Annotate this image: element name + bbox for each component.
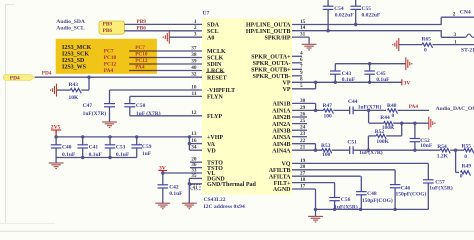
svg-text:VD: VD <box>207 148 216 154</box>
capacitor C54 <box>327 0 329 6</box>
svg-text:PC10: PC10 <box>104 55 117 61</box>
svg-text:PA4: PA4 <box>104 68 114 74</box>
svg-text:3: 3 <box>454 32 457 38</box>
capacitor C48 <box>356 192 367 195</box>
wire C48 to rail <box>360 195 362 210</box>
node C56 rail <box>333 208 336 211</box>
capacitor C40 <box>51 145 62 148</box>
svg-text:C45: C45 <box>376 71 386 77</box>
wire SPKR/HP pin 31 <box>292 36 309 38</box>
svg-text:R65: R65 <box>422 37 432 43</box>
capacitor C57 <box>423 180 434 183</box>
pin stub AIN2B <box>292 116 307 118</box>
node C45/VP <box>368 81 371 84</box>
pin stub AIN3A <box>292 136 307 138</box>
pin stub AIN3B <box>292 129 307 131</box>
svg-text:150pF(COG): 150pF(COG) <box>362 197 393 204</box>
svg-text:C43: C43 <box>342 71 352 77</box>
wire to R49 <box>456 171 459 173</box>
resistor R44 <box>384 122 393 127</box>
node PD4/R43 junction <box>87 76 90 79</box>
pin stub TSTO 20 <box>190 161 202 163</box>
RESET overline <box>206 71 225 73</box>
capacitor C51 <box>350 146 353 154</box>
capacitor C55 <box>355 0 357 6</box>
wire rail to ground <box>55 158 57 164</box>
PD4 tag flag <box>3 75 35 81</box>
wire AIN4A pin 21 <box>292 149 322 151</box>
wire R44 to ground <box>393 122 429 124</box>
svg-text:10nF: 10nF <box>420 143 433 149</box>
wire DGND pin 35 <box>189 177 202 179</box>
capacitor C42 <box>158 185 169 188</box>
wire C50 bottom to FLYP <box>129 107 131 116</box>
svg-text:C40: C40 <box>62 145 72 151</box>
wire C51 through J2 to R54 <box>353 149 440 151</box>
svg-text:C55: C55 <box>362 6 372 12</box>
svg-text:C50: C50 <box>136 103 146 109</box>
wire R43 to junction <box>81 89 89 91</box>
svg-text:SPKR_OUTA-: SPKR_OUTA- <box>253 61 291 67</box>
svg-text:AGND: AGND <box>273 187 291 193</box>
svg-text:Audio_SCL: Audio_SCL <box>56 26 85 32</box>
node R55/R49 <box>454 149 457 152</box>
svg-text:0: 0 <box>392 113 395 119</box>
svg-text:A0: A0 <box>207 35 214 41</box>
capacitor C47 <box>104 104 115 107</box>
svg-text:C54: C54 <box>334 6 344 12</box>
wire C41 top stub <box>82 137 84 145</box>
pin 41 thermal pad dashed box <box>191 185 200 190</box>
ground 2V5 rail <box>49 163 64 169</box>
capacitor C44 <box>350 107 353 115</box>
wire FLYN pin 11 <box>130 95 202 97</box>
wire AFILTA down to C48 <box>360 176 362 191</box>
pin stub SPKR_OUTB- <box>292 75 302 77</box>
wire A0 <box>169 36 202 38</box>
svg-text:+VHP: +VHP <box>207 135 223 141</box>
wire C59 top stub <box>136 137 138 145</box>
svg-text:VP: VP <box>283 87 291 93</box>
svg-text:AIN4B: AIN4B <box>272 142 290 148</box>
ground C47 <box>102 122 117 128</box>
svg-text:SPKR_OUTB-: SPKR_OUTB- <box>252 74 290 80</box>
svg-text:CS43L22: CS43L22 <box>204 197 226 203</box>
svg-text:R44: R44 <box>380 115 390 121</box>
wire AGND down <box>315 189 317 209</box>
node VP join <box>314 81 317 84</box>
svg-text:C56: C56 <box>341 197 351 203</box>
wire VQ pin 19 <box>292 162 428 164</box>
node AIN1 join <box>314 109 317 112</box>
node DGND/GNDTH <box>188 182 191 185</box>
svg-text:PB6: PB6 <box>137 26 147 32</box>
svg-text:AFILTB: AFILTB <box>269 168 291 174</box>
wire C54 to OUTB <box>327 9 329 30</box>
node AIN4 join <box>314 149 317 152</box>
wire OUTA up to CN4 pin 2 <box>440 17 442 24</box>
capacitor C53 <box>105 145 116 148</box>
svg-text:0.1uF: 0.1uF <box>342 77 356 83</box>
capacitor C46 <box>390 185 401 188</box>
wire AIN1B stub pin 30 <box>292 102 316 104</box>
svg-text:PA4: PA4 <box>135 65 145 71</box>
svg-text:1.2K: 1.2K <box>437 154 449 160</box>
wire AFILTB down to C46 <box>394 170 396 185</box>
wire C42 top stub <box>162 173 164 185</box>
wire C40 top stub <box>55 137 57 145</box>
wire VQ down to C57 <box>427 163 429 179</box>
svg-text:AIN3A: AIN3A <box>272 135 291 141</box>
wire C41 bottom stub <box>82 148 84 158</box>
ground R43 <box>51 84 57 97</box>
svg-text:AIN1B: AIN1B <box>272 102 290 108</box>
svg-text:PC12: PC12 <box>104 61 117 67</box>
wire 2V5 bottom rail <box>56 157 137 159</box>
svg-text:AFILTA: AFILTA <box>269 174 291 180</box>
svg-text:CN4: CN4 <box>460 9 471 15</box>
node C41 junction <box>81 135 84 138</box>
wire C45 top stub <box>369 64 371 71</box>
wire FILT+ down to C56 <box>334 183 336 198</box>
svg-text:R48: R48 <box>387 103 397 109</box>
wire C47 stub <box>109 90 111 104</box>
svg-text:R47: R47 <box>323 103 333 109</box>
svg-text:SDA: SDA <box>207 23 220 29</box>
svg-text:ST-214: ST-214 <box>461 48 474 54</box>
wire R52 left to J2 <box>368 135 376 137</box>
svg-text:100K: 100K <box>376 139 389 145</box>
svg-text:I2S3_WS: I2S3_WS <box>62 65 87 71</box>
pin stub TSTO 36 <box>190 167 202 169</box>
svg-text:HP/LINE_OUTB: HP/LINE_OUTB <box>246 29 291 35</box>
wire AFILTA pin 27 <box>292 175 361 177</box>
resistor R47 <box>323 109 333 114</box>
svg-text:SDIN: SDIN <box>207 62 222 68</box>
wire C52 top stub <box>414 123 416 138</box>
wire C53 top stub <box>109 137 111 145</box>
svg-text:PC7: PC7 <box>135 45 145 51</box>
node C45 top <box>368 62 371 65</box>
node C54/OUTB <box>326 29 329 32</box>
wire R52 to riser <box>386 135 402 137</box>
pin stub SPKR_OUTB+ <box>292 68 302 70</box>
wire C42 to ground <box>162 188 164 203</box>
wire R48 to net end <box>398 109 430 111</box>
resistor R43 <box>70 89 81 94</box>
svg-text:PC10: PC10 <box>135 52 148 58</box>
wire HP/LINE_OUTA pin 15 <box>292 24 442 26</box>
node AGND rail <box>314 208 317 211</box>
svg-text:SCL: SCL <box>207 29 219 35</box>
wire down to R49 <box>455 150 457 172</box>
node C43/VP <box>334 81 337 84</box>
svg-text:2: 2 <box>453 11 456 17</box>
node J1 <box>367 109 370 112</box>
PB9/PB6 tag block <box>99 21 124 34</box>
wire C52 bottom stub <box>414 142 416 151</box>
pin stub SPKR_OUTA+ <box>292 55 302 57</box>
svg-text:0.1uF: 0.1uF <box>376 77 390 83</box>
svg-text:Audio_SDA: Audio_SDA <box>56 19 85 25</box>
wire AGND pin 17 <box>292 188 316 190</box>
capacitor C41 <box>77 145 88 148</box>
node 2V5/C40 <box>54 135 57 138</box>
wire PC7 to IC <box>129 50 157 52</box>
ground AGND <box>308 216 323 222</box>
svg-text:SCLK: SCLK <box>207 56 224 62</box>
svg-text:1uF: 1uF <box>142 151 152 157</box>
svg-text:13: 13 <box>191 131 197 137</box>
wire AIN1A pin 29 <box>292 109 323 111</box>
capacitor C50 <box>124 104 135 107</box>
svg-text:PB9: PB9 <box>137 19 147 25</box>
svg-text:R53: R53 <box>321 143 331 149</box>
capacitor C56 <box>329 198 340 201</box>
wire 2V5 rail to +VHP pin 13 <box>56 136 202 138</box>
svg-text:VA: VA <box>207 142 216 148</box>
wire C43 bottom stub <box>334 74 336 82</box>
svg-text:100: 100 <box>322 152 331 158</box>
svg-text:C59: C59 <box>142 144 152 150</box>
svg-text:R54: R54 <box>437 144 447 150</box>
svg-text:MCLK: MCLK <box>207 49 226 55</box>
wire C57 to rail <box>427 183 429 209</box>
svg-text:I2S3_MCK: I2S3_MCK <box>62 45 92 51</box>
wire C40 bottom stub <box>55 148 57 158</box>
capacitor C52 <box>410 139 421 142</box>
wire ground to R65 <box>399 44 422 46</box>
svg-text:C51: C51 <box>347 140 357 146</box>
svg-text:I2C address 0x94: I2C address 0x94 <box>204 204 245 210</box>
wire R52 riser <box>401 123 403 136</box>
svg-text:0.1uF: 0.1uF <box>169 191 183 197</box>
wire VL pin 33 <box>163 172 202 174</box>
svg-text:PC12: PC12 <box>135 58 148 64</box>
svg-text:AIN2A: AIN2A <box>272 122 291 128</box>
wire PB6 to SCL pin 2 <box>124 30 202 32</box>
svg-text:SPKR_OUTB+: SPKR_OUTB+ <box>251 68 291 74</box>
svg-text:Audio_DAC_OUT: Audio_DAC_OUT <box>436 106 474 112</box>
resistor R55 <box>464 149 474 154</box>
wire VP pin 8 <box>292 81 402 83</box>
svg-text:U7: U7 <box>203 10 210 16</box>
svg-text:C48: C48 <box>367 191 377 197</box>
resistor R48 <box>388 109 398 114</box>
wire DGND riser <box>188 178 190 203</box>
wire C59 bottom stub <box>136 148 138 158</box>
wire C47 to ground <box>109 107 111 122</box>
wire C55 to OUTA <box>355 9 357 24</box>
wire VA pin 16 <box>189 143 202 145</box>
svg-text:0.022uF: 0.022uF <box>362 12 381 18</box>
svg-text:VQ: VQ <box>282 162 291 168</box>
wire VA/VD riser <box>188 137 190 150</box>
svg-text:C57: C57 <box>435 179 445 185</box>
wire C46 to rail <box>394 188 396 210</box>
wire C50 top stub <box>129 96 131 103</box>
power symbol 3V (VP) <box>401 79 403 85</box>
ground DGND <box>182 203 197 209</box>
wire ground to R43 <box>57 89 71 91</box>
svg-text:SPKR_OUTA+: SPKR_OUTA+ <box>251 55 291 61</box>
wire VD pin 34 <box>189 149 202 151</box>
node C53 junction <box>108 135 111 138</box>
svg-text:AIN4A: AIN4A <box>272 148 291 154</box>
wire C43 top stub <box>334 64 336 71</box>
capacitor C55 <box>350 6 361 9</box>
node X1 <box>400 122 403 125</box>
svg-text:PB6: PB6 <box>103 28 113 34</box>
connector pin 3 squiggle <box>465 34 474 37</box>
wire R53 to C51 <box>332 149 350 151</box>
I2S3 gold highlight box <box>56 39 157 74</box>
wire VP pin 5 <box>292 88 316 90</box>
svg-text:LRCK: LRCK <box>207 69 225 75</box>
svg-text:GND/Thermal Pad: GND/Thermal Pad <box>207 182 256 188</box>
svg-text:AIN2B: AIN2B <box>272 115 290 121</box>
svg-text:HP/LINE_OUTA: HP/LINE_OUTA <box>246 23 291 29</box>
svg-text:1uF(X7R): 1uF(X7R) <box>83 110 107 117</box>
svg-text:PB9: PB9 <box>103 21 113 27</box>
svg-text:0.022uF: 0.022uF <box>335 12 354 18</box>
svg-text:I2S3_SD: I2S3_SD <box>62 58 85 64</box>
svg-text:10K: 10K <box>69 95 80 101</box>
ground bias <box>429 117 435 130</box>
svg-text:100: 100 <box>324 114 333 120</box>
wire C44 to R48 <box>353 109 386 111</box>
resistor R54 <box>440 149 450 154</box>
wire C45 bottom stub <box>369 74 371 82</box>
svg-text:C41: C41 <box>89 145 99 151</box>
ground VP caps <box>406 57 412 70</box>
svg-text:FLYP: FLYP <box>207 114 222 120</box>
wire PC10 to IC <box>129 57 157 59</box>
wire -VHPFILT pin 10 <box>110 89 203 91</box>
svg-text:3V: 3V <box>404 81 411 87</box>
svg-text:PA4: PA4 <box>409 104 419 110</box>
ground C42 <box>155 203 170 209</box>
svg-text:+: + <box>138 141 141 146</box>
wire bottom cap rail <box>316 208 429 210</box>
wire PC12 to IC <box>129 63 157 65</box>
wire R65 to CN4 pin 1 <box>433 44 474 46</box>
svg-text:FLYN: FLYN <box>207 95 223 101</box>
wire R47 to C44 <box>333 109 349 111</box>
wire R43 riser <box>88 77 90 90</box>
wire PD4 to RESET pin 32 <box>35 76 202 78</box>
wire PB9 to SDA pin 1 <box>124 23 202 25</box>
svg-text:0: 0 <box>424 47 427 53</box>
resistor R52 <box>376 134 386 139</box>
svg-text:I2S3_SCK: I2S3_SCK <box>62 52 89 58</box>
wire FLYP pin 12 <box>130 115 202 117</box>
resistor R49 <box>461 171 471 176</box>
svg-text:R52: R52 <box>375 129 385 135</box>
svg-text:AIN1A: AIN1A <box>272 109 291 115</box>
node C59 junction <box>135 135 138 138</box>
node C52 top <box>413 122 416 125</box>
svg-text:0: 0 <box>464 154 467 160</box>
node C46 rail <box>393 208 396 211</box>
ground R65 <box>393 38 399 51</box>
wire PA4 to IC <box>129 70 157 72</box>
wire J1 down to R44 <box>368 110 370 123</box>
capacitor C45 <box>364 71 375 74</box>
svg-text:1: 1 <box>454 39 457 45</box>
wire C53 bottom stub <box>109 148 111 158</box>
svg-text:C44: C44 <box>348 99 358 105</box>
wire HP/LINE_OUTB pin 14 <box>292 30 442 32</box>
wire C56 to rail <box>334 201 336 210</box>
wire rail to ground <box>315 209 317 216</box>
svg-text:150pF(COG): 150pF(COG) <box>396 190 427 197</box>
svg-text:R49: R49 <box>462 163 472 169</box>
wire caps top rail <box>335 63 405 65</box>
svg-text:FILT+: FILT+ <box>274 181 291 187</box>
svg-text:RESET: RESET <box>207 75 227 81</box>
svg-text:AIN3B: AIN3B <box>272 128 290 134</box>
svg-text:-VHPFILT: -VHPFILT <box>207 88 235 94</box>
svg-text:R43: R43 <box>69 82 79 88</box>
wire AIN4B stub pin 22 <box>292 143 316 145</box>
svg-text:1uF(X5R): 1uF(X5R) <box>429 185 453 192</box>
wire to R44 <box>369 122 384 124</box>
pin stub SPKR_OUTA- <box>292 62 302 64</box>
wire R54 to node <box>450 149 464 151</box>
svg-text:0: 0 <box>460 174 463 180</box>
svg-text:C53: C53 <box>116 145 126 151</box>
svg-text:41: 41 <box>193 186 199 191</box>
wire AFILTB pin 28 <box>292 169 395 171</box>
node 3V/C42/VL <box>161 171 164 174</box>
capacitor C54 <box>323 6 334 9</box>
wire SPKR/HP down <box>308 37 310 44</box>
svg-text:C47: C47 <box>83 103 93 109</box>
pin stub AIN2A <box>292 123 307 125</box>
node C52 bottom <box>413 149 416 152</box>
capacitor C59 (polarized) <box>131 145 142 148</box>
node J2 <box>367 149 370 152</box>
svg-text:R55: R55 <box>462 144 472 150</box>
ground SPKR/HP <box>302 44 317 50</box>
resistor R53 <box>322 149 332 154</box>
wire FILT+ pin 18 <box>292 182 335 184</box>
resistor R65 <box>422 43 433 48</box>
svg-text:C42: C42 <box>169 184 179 190</box>
capacitor C43 <box>330 71 341 74</box>
svg-text:PD4: PD4 <box>42 70 52 76</box>
wire OUTB down to CN4 pin 3 <box>440 31 442 38</box>
node C48 rail <box>359 208 362 211</box>
svg-text:SPKR/HP: SPKR/HP <box>264 35 290 41</box>
svg-text:VP: VP <box>283 81 291 87</box>
svg-text:PC7: PC7 <box>104 48 114 54</box>
svg-text:PD4: PD4 <box>10 75 20 81</box>
node C55/OUTA <box>354 23 357 26</box>
IC U7 CS43L22 body <box>202 18 292 194</box>
ground A0 <box>163 31 169 44</box>
wire GND/Thermal Pad pin 41 <box>189 183 202 185</box>
